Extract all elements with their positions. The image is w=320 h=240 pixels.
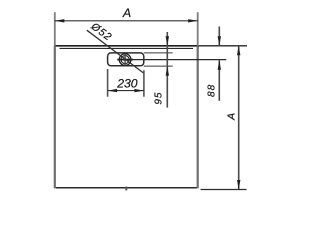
channel top edge extension line (144, 52, 173, 54)
leader line for Ø52 (87, 30, 145, 73)
tray top edge extension line (to right, ref for 88 and A dims) (198, 45, 247, 47)
bottom edge extension line (right) (201, 189, 247, 191)
drain axis tick on bottom edge (125, 187, 127, 191)
drain symbol (117, 54, 132, 66)
dimension A top: right extension line (197, 12, 199, 46)
dimension 230: dimension line with arrows (108, 89, 144, 92)
dimension A top: dimension line with arrows (55, 19, 198, 22)
dimension A right: line with arrows (237, 46, 240, 190)
channel bottom edge extension line (144, 65, 173, 67)
shower tray outline (54, 46, 199, 189)
inner rim edge (60, 47, 194, 49)
svg-text:A: A (122, 6, 131, 20)
svg-text:95: 95 (154, 92, 165, 105)
dimension 95: line with arrows (166, 32, 169, 108)
svg-text:88: 88 (206, 84, 217, 97)
svg-text:A: A (226, 113, 238, 121)
dimension 230: left extension line (107, 69, 109, 97)
svg-text:230: 230 (116, 77, 138, 91)
drain centerline (117, 59, 226, 61)
dimension 230: right extension line (143, 70, 145, 97)
drain channel (108, 53, 144, 66)
dimension 88: line with arrows (218, 27, 221, 101)
dimension A top: left extension line (54, 12, 56, 46)
